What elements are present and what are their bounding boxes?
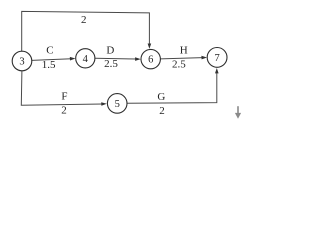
svg-text:6: 6 [148,55,153,66]
arrowhead into node 5 left [101,102,107,106]
wire dummy top (3 to 6) [22,11,150,51]
wire F (3 down to 5) [21,71,102,105]
svg-text:2.5: 2.5 [104,58,118,70]
grey down-arrow indicator [235,106,241,119]
arrowhead into node 7 bottom (up) [215,68,219,73]
svg-text:2: 2 [61,105,67,117]
arrowhead into node 6 left [135,57,141,61]
svg-text:2: 2 [159,105,165,117]
svg-text:C: C [46,45,53,57]
svg-text:3: 3 [19,57,24,68]
node 7 [207,48,227,68]
svg-text:1.5: 1.5 [42,59,56,71]
wire C (3 to 4) [32,59,72,61]
arrowhead into node 6 (down) [148,44,152,49]
svg-text:H: H [180,45,188,57]
node 6 [141,49,160,68]
wire H (6 to 7) [160,58,202,59]
node 5 [107,94,127,114]
svg-text:7: 7 [214,53,219,64]
wire D (4 to 6) [95,57,137,60]
svg-text:G: G [157,91,165,103]
arrowhead into node 7 left [201,56,207,60]
svg-text:F: F [61,91,67,103]
svg-text:2.5: 2.5 [172,59,186,71]
node 3 [12,51,32,71]
node 4 [76,49,95,68]
arrowhead into node 4 [70,57,76,61]
svg-text:5: 5 [115,99,120,110]
wire G (5 to 7) [127,72,217,103]
svg-text:4: 4 [83,54,89,65]
svg-text:D: D [106,45,114,57]
svg-text:2: 2 [81,14,87,26]
